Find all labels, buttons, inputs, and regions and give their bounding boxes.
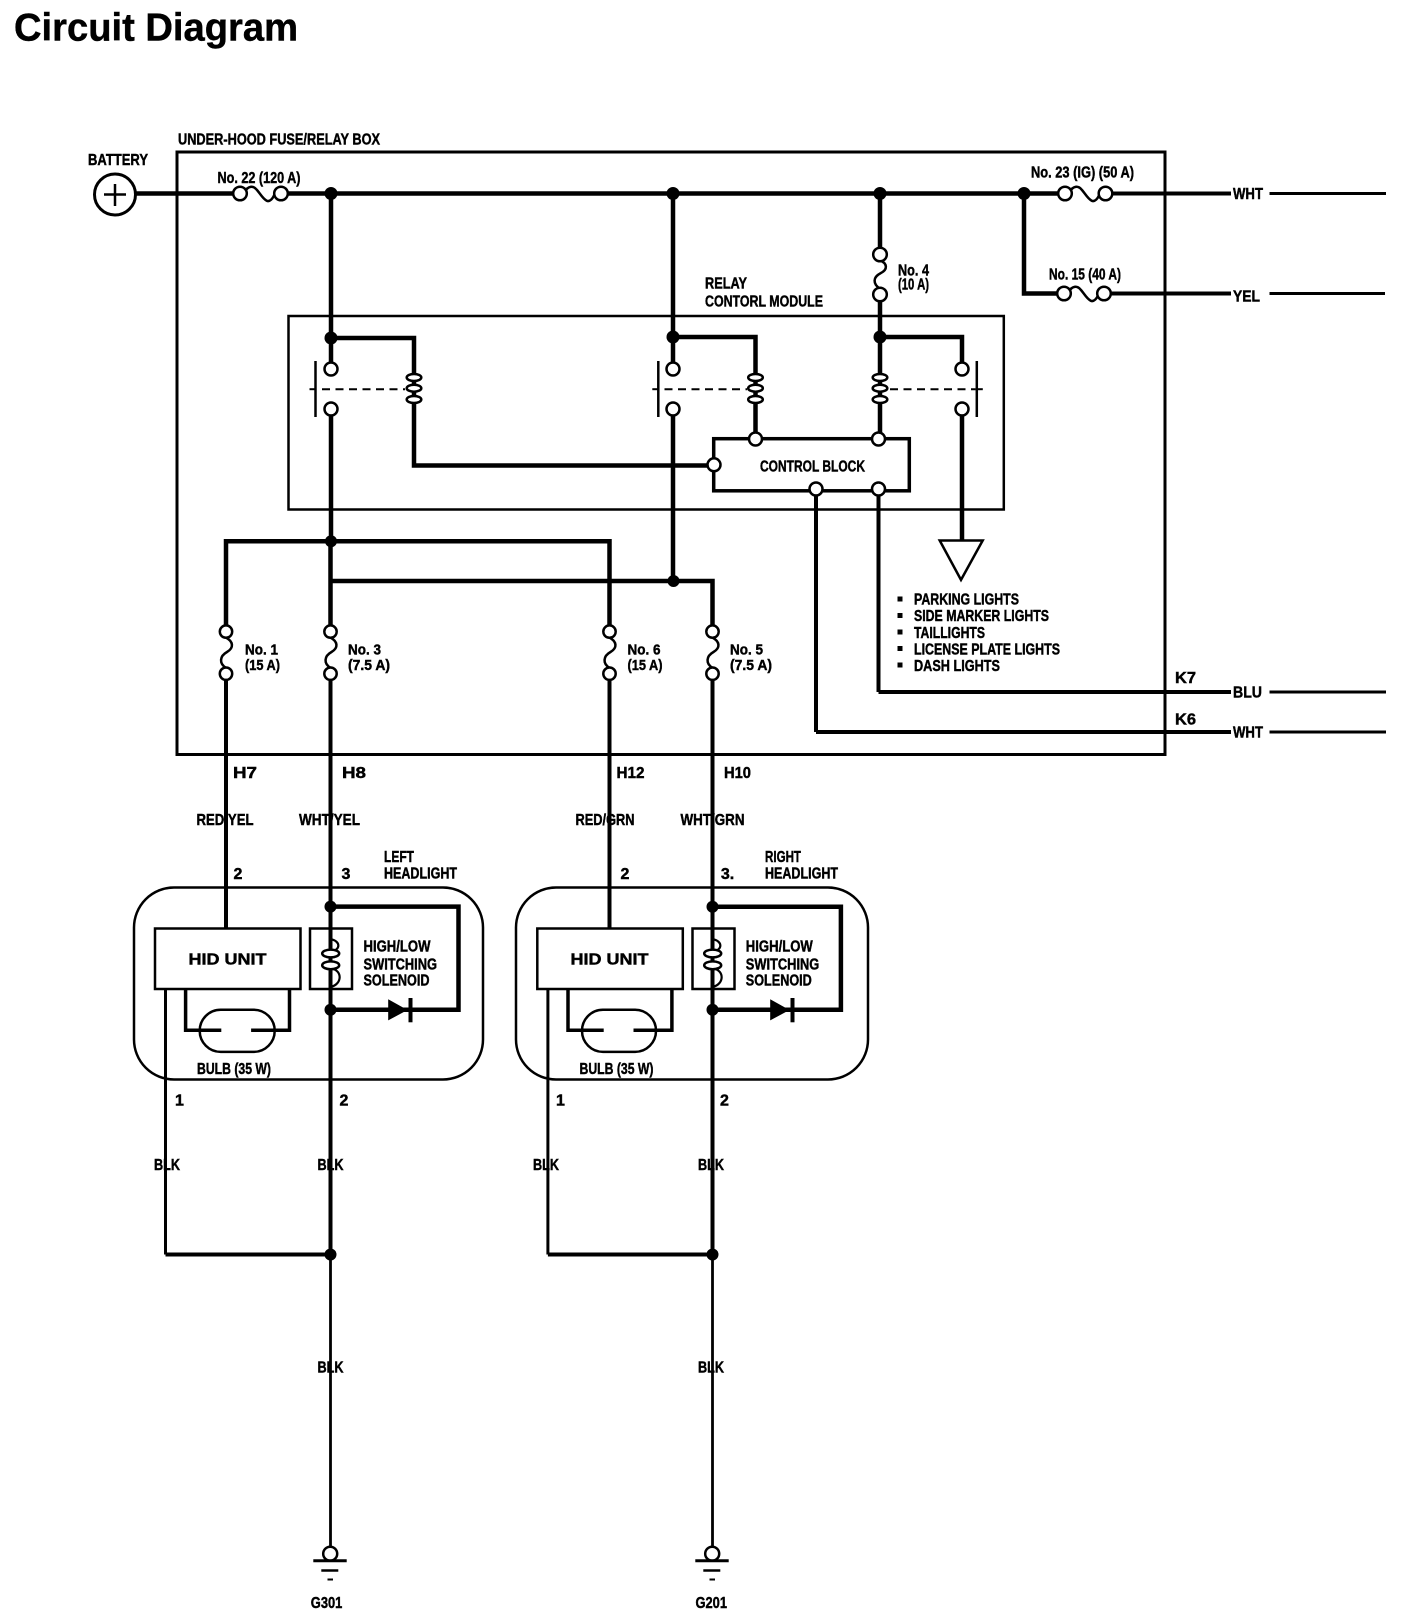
svg-text:G201: G201 <box>696 1595 728 1612</box>
svg-text:3.: 3. <box>721 866 734 883</box>
svg-text:No. 15 (40 A): No. 15 (40 A) <box>1049 267 1121 284</box>
svg-text:BLK: BLK <box>318 1157 344 1174</box>
svg-text:HEADLIGHT: HEADLIGHT <box>384 866 457 883</box>
svg-text:(7.5 A): (7.5 A) <box>730 657 772 674</box>
svg-text:HID UNIT: HID UNIT <box>189 952 267 969</box>
svg-text:H7: H7 <box>233 765 257 782</box>
svg-text:K6: K6 <box>1175 712 1196 729</box>
svg-text:HID UNIT: HID UNIT <box>571 952 649 969</box>
svg-text:WHT/YEL: WHT/YEL <box>299 812 360 829</box>
svg-text:BLK: BLK <box>698 1360 724 1377</box>
svg-text:(10 A): (10 A) <box>898 277 929 294</box>
svg-text:BULB (35 W): BULB (35 W) <box>197 1061 271 1078</box>
svg-text:RED/YEL: RED/YEL <box>197 812 254 829</box>
svg-text:SWITCHING: SWITCHING <box>364 957 438 974</box>
svg-text:LICENSE PLATE LIGHTS: LICENSE PLATE LIGHTS <box>914 641 1060 658</box>
svg-text:3: 3 <box>342 866 351 883</box>
svg-text:CONTORL MODULE: CONTORL MODULE <box>705 294 823 311</box>
svg-text:CONTROL BLOCK: CONTROL BLOCK <box>760 459 865 476</box>
svg-text:(15 A): (15 A) <box>628 657 663 674</box>
svg-text:2: 2 <box>340 1093 349 1110</box>
svg-text:BLK: BLK <box>698 1157 724 1174</box>
svg-text:RED/GRN: RED/GRN <box>576 812 635 829</box>
svg-text:(7.5 A): (7.5 A) <box>348 657 390 674</box>
svg-text:WHT/GRN: WHT/GRN <box>681 812 745 829</box>
svg-text:G301: G301 <box>311 1595 343 1612</box>
svg-text:HIGH/LOW: HIGH/LOW <box>746 939 814 956</box>
svg-text:(15 A): (15 A) <box>245 657 280 674</box>
svg-text:No. 6: No. 6 <box>628 642 661 659</box>
svg-text:YEL: YEL <box>1233 289 1260 306</box>
svg-text:No. 5: No. 5 <box>730 642 763 659</box>
svg-text:BATTERY: BATTERY <box>88 152 148 169</box>
svg-text:K7: K7 <box>1175 670 1196 687</box>
svg-text:BLU: BLU <box>1233 685 1262 702</box>
svg-text:RELAY: RELAY <box>705 276 747 293</box>
svg-text:TAILLIGHTS: TAILLIGHTS <box>914 625 985 642</box>
svg-text:WHT: WHT <box>1233 186 1263 203</box>
svg-text:1: 1 <box>556 1093 565 1110</box>
svg-text:SIDE MARKER LIGHTS: SIDE MARKER LIGHTS <box>914 608 1049 625</box>
svg-text:2: 2 <box>621 866 630 883</box>
svg-text:BLK: BLK <box>154 1157 180 1174</box>
svg-text:Circuit Diagram: Circuit Diagram <box>14 7 298 50</box>
svg-text:H10: H10 <box>724 765 751 782</box>
svg-text:2: 2 <box>234 866 243 883</box>
svg-text:No. 1: No. 1 <box>245 642 278 659</box>
svg-text:UNDER-HOOD FUSE/RELAY BOX: UNDER-HOOD FUSE/RELAY BOX <box>178 132 380 149</box>
svg-text:WHT: WHT <box>1233 725 1263 742</box>
svg-text:BLK: BLK <box>533 1157 559 1174</box>
svg-text:BULB (35 W): BULB (35 W) <box>580 1061 654 1078</box>
svg-text:1: 1 <box>175 1093 184 1110</box>
svg-text:LEFT: LEFT <box>384 849 414 866</box>
svg-text:No. 3: No. 3 <box>348 642 381 659</box>
svg-text:PARKING LIGHTS: PARKING LIGHTS <box>914 592 1019 609</box>
svg-text:SOLENOID: SOLENOID <box>364 973 430 990</box>
svg-text:RIGHT: RIGHT <box>765 849 801 866</box>
svg-text:No. 23 (IG) (50 A): No. 23 (IG) (50 A) <box>1031 165 1134 182</box>
svg-text:BLK: BLK <box>318 1360 344 1377</box>
svg-text:HIGH/LOW: HIGH/LOW <box>364 939 432 956</box>
svg-text:HEADLIGHT: HEADLIGHT <box>765 866 838 883</box>
svg-text:No. 22 (120 A): No. 22 (120 A) <box>218 170 301 187</box>
svg-text:SOLENOID: SOLENOID <box>746 973 812 990</box>
svg-text:SWITCHING: SWITCHING <box>746 957 820 974</box>
svg-text:H12: H12 <box>617 765 645 782</box>
svg-text:H8: H8 <box>342 765 366 782</box>
svg-text:DASH LIGHTS: DASH LIGHTS <box>914 658 1000 675</box>
svg-text:2: 2 <box>720 1093 729 1110</box>
